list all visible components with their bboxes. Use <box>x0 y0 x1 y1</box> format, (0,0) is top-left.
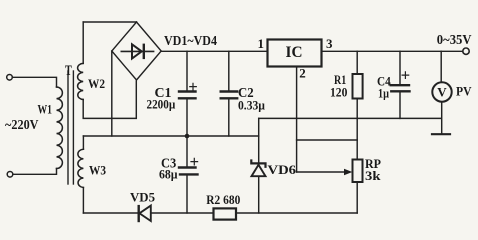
output terminal <box>463 48 469 54</box>
wire input bottom horizontal <box>13 169 57 175</box>
svg-text:0~35V: 0~35V <box>437 32 472 47</box>
wire top rail to bridge top <box>83 21 136 23</box>
svg-text:IC: IC <box>286 44 303 61</box>
input terminal bottom <box>7 172 13 178</box>
capacitor C2 <box>228 51 230 90</box>
winding W3 <box>78 149 84 187</box>
svg-text:3: 3 <box>326 36 333 51</box>
svg-text:W1: W1 <box>38 102 53 117</box>
capacitor C1 <box>186 51 188 90</box>
wire W2 top to rail <box>82 22 84 63</box>
svg-text:1µ: 1µ <box>378 86 389 101</box>
svg-text:V: V <box>437 84 447 99</box>
wire RP bottom <box>356 182 358 213</box>
svg-text:120: 120 <box>330 84 347 99</box>
IC regulator U1 box <box>268 40 322 67</box>
svg-text:0.33µ: 0.33µ <box>238 98 265 113</box>
svg-text:3k: 3k <box>365 168 381 183</box>
voltmeter PV <box>440 51 442 82</box>
wire W3 bottom to bottom rail <box>82 188 84 214</box>
wire W2 bottom to bridge bottom <box>83 81 136 118</box>
svg-text:1: 1 <box>258 36 265 51</box>
svg-text:2: 2 <box>299 66 306 81</box>
svg-text:~220V: ~220V <box>5 117 39 132</box>
wire bottom rail middle <box>151 212 214 214</box>
capacitor C3 <box>186 136 188 166</box>
wire bottom rail left <box>83 212 138 214</box>
svg-text:2200µ: 2200µ <box>147 97 176 112</box>
svg-text:VD1~VD4: VD1~VD4 <box>164 33 217 48</box>
wire right common rail <box>259 117 442 119</box>
bridge rectifier VD1~VD4 diamond <box>112 22 161 80</box>
winding W2 <box>78 63 84 99</box>
svg-text:W2: W2 <box>88 76 105 91</box>
svg-text:68µ: 68µ <box>159 167 178 182</box>
capacitor C4 <box>399 51 401 84</box>
svg-text:PV: PV <box>456 84 472 99</box>
wire bridge minus down to common rail <box>111 51 113 136</box>
wire bottom rail right <box>236 212 357 214</box>
diode VD5 <box>137 206 139 221</box>
winding W1 <box>57 87 63 169</box>
zener diode VD6 <box>258 118 260 163</box>
svg-text:T: T <box>65 63 72 79</box>
svg-text:VD5: VD5 <box>130 190 155 205</box>
bridge inner diode <box>121 50 153 52</box>
wire top plus rail <box>161 50 267 52</box>
wire input top horizontal <box>12 77 56 87</box>
svg-text:VD6: VD6 <box>268 162 297 177</box>
svg-text:R2 680: R2 680 <box>206 192 240 207</box>
ground <box>432 133 450 135</box>
input terminal top <box>7 75 13 81</box>
potentiometer RP <box>353 160 363 183</box>
wire adj branch to R1 bottom <box>297 139 358 141</box>
wire wiper arrow to RP <box>297 171 345 173</box>
node main junction dot <box>185 134 190 139</box>
transformer core <box>67 71 69 184</box>
wire W3 top to common rail <box>82 136 84 149</box>
wire common rail <box>83 135 258 137</box>
wire IC pin2 down <box>296 68 298 172</box>
resistor R2 <box>214 208 237 219</box>
resistor R1 <box>356 51 358 74</box>
svg-text:W3: W3 <box>89 163 106 178</box>
